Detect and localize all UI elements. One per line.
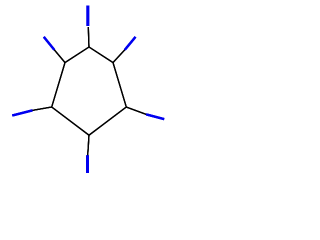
bond C5-N (right substituent, nitrogen half, blue): [146, 114, 164, 119]
ring bond C2-C3 (left edge): [52, 63, 65, 107]
bond C6-N (upper-right substituent, carbon half): [113, 50, 125, 63]
bond C2-N (upper-left substituent, nitrogen half, blue): [44, 37, 55, 50]
re-stroke pass to harden anti-aliased edges: [12, 6, 164, 174]
bond C3-N (left substituent, nitrogen half, blue): [12, 110, 32, 115]
ring bond C1-C2 (top-left edge): [65, 47, 89, 63]
bond C4-N (bottom substituent, nitrogen half, blue): [86, 155, 89, 173]
bond C4-N (bottom substituent, carbon half): [88, 135, 89, 155]
ring bond C5-C4 (bottom-right edge): [89, 107, 126, 135]
ring bond C1-C6 (top-right edge): [89, 47, 113, 63]
bond C2-N (upper-left substituent, carbon half): [54, 50, 65, 63]
ring bond C6-C5 (right edge): [113, 63, 126, 107]
bond C3-N (left substituent, carbon half): [32, 107, 51, 110]
bond C1-N (top substituent, nitrogen half, blue): [86, 6, 89, 27]
bond C1-N (top substituent, carbon half): [87, 27, 90, 47]
bond C5-N (right substituent, carbon half): [126, 107, 146, 114]
ring bond C3-C4 (bottom-left edge): [52, 107, 89, 135]
re-stroke pass to harden anti-aliased edges: [12, 6, 164, 174]
bond C6-N (upper-right substituent, nitrogen half, blue): [125, 37, 136, 50]
